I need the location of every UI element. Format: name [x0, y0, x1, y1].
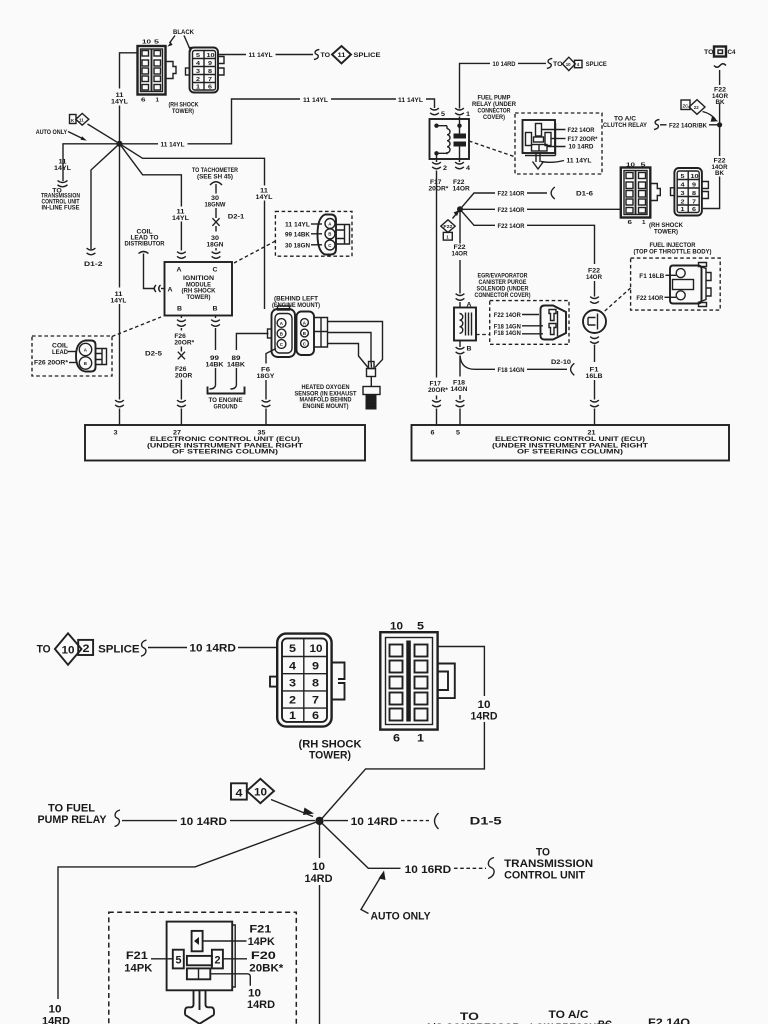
svg-text:8: 8	[208, 69, 212, 75]
svg-text:F26 20OR*: F26 20OR*	[34, 360, 68, 367]
fuel injector connector detail (dashed box)	[603, 258, 720, 312]
svg-text:14BK: 14BK	[227, 362, 245, 369]
svg-text:10 14RD: 10 14RD	[569, 144, 594, 151]
svg-text:TOWER): TOWER)	[172, 108, 194, 115]
svg-text:14RD: 14RD	[471, 711, 498, 723]
svg-text:CLUTCH RELAY: CLUTCH RELAY	[603, 122, 648, 129]
svg-text:D2-5: D2-5	[145, 351, 162, 358]
svg-text:10: 10	[626, 163, 635, 169]
svg-text:F22 14OR: F22 14OR	[498, 223, 525, 230]
svg-text:F18 14GN: F18 14GN	[498, 367, 525, 374]
wire: J2 to injector circle (F22 14OR)	[460, 209, 602, 303]
in-line connector detail (dashed box, F21/F20)	[109, 912, 296, 1024]
svg-text:10 14RD: 10 14RD	[180, 816, 227, 828]
wire: TO A/C CLUTCH RELAY (F22 14OR/BK)	[603, 116, 720, 130]
svg-text:F1 16LB: F1 16LB	[639, 273, 664, 280]
svg-text:10 16RD: 10 16RD	[405, 864, 452, 876]
wire: J1 to D1-2	[84, 144, 120, 268]
svg-text:14PK: 14PK	[124, 963, 152, 975]
wire: J4 to transmission control unit (10 16RD)	[320, 821, 594, 882]
svg-text:TO: TO	[536, 847, 550, 859]
svg-text:5: 5	[641, 163, 646, 169]
wire: J1 left to transmission in-line fuse stub	[54, 144, 120, 181]
svg-text:5: 5	[456, 430, 460, 437]
splice symbol: TO 10/2 SPLICE (bottom section)	[37, 633, 278, 665]
svg-text:F2 14O: F2 14O	[648, 1017, 690, 1024]
EGR/evaporator canister purge solenoid L1	[454, 273, 531, 354]
svg-text:4: 4	[289, 660, 297, 672]
svg-text:F22 14OR/BK: F22 14OR/BK	[669, 122, 707, 129]
svg-text:10 14RD: 10 14RD	[351, 816, 398, 828]
svg-text:11 14YL: 11 14YL	[567, 158, 592, 165]
svg-text:5: 5	[441, 111, 445, 118]
svg-text:K: K	[71, 118, 75, 123]
fuel injector connector C2a (left)	[621, 163, 661, 227]
svg-text:6: 6	[312, 710, 319, 722]
svg-text:10: 10	[254, 787, 267, 799]
wire: J3 up to C4 connector (F22 14OR BK)	[704, 47, 736, 125]
svg-text:10: 10	[478, 699, 491, 711]
svg-text:GROUND: GROUND	[214, 403, 238, 410]
wire: C3b to junction J4 (10 14RD)	[320, 647, 498, 821]
splice ref symbol K/11 diamond	[70, 113, 120, 143]
svg-text:5: 5	[417, 621, 424, 633]
svg-text:9: 9	[208, 61, 212, 67]
svg-text:(TOP OF THROTTLE BODY): (TOP OF THROTTLE BODY)	[634, 249, 712, 256]
svg-text:F22: F22	[443, 224, 453, 229]
svg-text:10: 10	[207, 53, 215, 59]
svg-text:BLACK: BLACK	[173, 29, 194, 36]
svg-text:4: 4	[466, 165, 470, 172]
splice ref diamond ZC/22 at J3	[681, 100, 718, 122]
wire: O2 sensor ground (89 14BK)	[227, 334, 269, 390]
svg-text:14PK: 14PK	[248, 936, 275, 948]
3-pin connector detail (dashed box, 11 14YL / 99 14BK / 30 18GN)	[234, 211, 352, 263]
wire: branch to D2-10 (F18 14GN)	[460, 356, 574, 376]
svg-text:AUTO ONLY: AUTO ONLY	[371, 911, 431, 923]
node J4 junction	[315, 817, 323, 825]
svg-text:6: 6	[208, 85, 212, 91]
svg-text:14YL: 14YL	[172, 215, 189, 222]
wire: J4 to bottom left (10 14RD)	[42, 821, 320, 1024]
svg-text:6: 6	[393, 733, 400, 745]
svg-text:F21: F21	[249, 924, 271, 936]
svg-text:10: 10	[390, 621, 403, 633]
svg-text:F22 14OR: F22 14OR	[494, 312, 521, 319]
svg-text:BK: BK	[715, 170, 724, 177]
wire: J1 down to ECU pin 3 (11 14YL)	[111, 146, 127, 425]
svg-text:B: B	[213, 306, 218, 313]
svg-text:11 14YL: 11 14YL	[161, 142, 185, 149]
svg-text:F22 14OR: F22 14OR	[498, 191, 525, 198]
svg-text:C: C	[280, 342, 284, 347]
svg-text:CONNECTOR COVER): CONNECTOR COVER)	[475, 292, 531, 299]
wire: relay pin 2 down to ECU pin 6 (F17 20OR*)	[428, 171, 448, 426]
svg-text:A: A	[168, 287, 173, 294]
EGR solenoid connector detail (dashed box)	[476, 301, 569, 345]
svg-text:F22 14OR: F22 14OR	[498, 207, 525, 214]
node J1 junction	[117, 141, 123, 147]
svg-text:B: B	[467, 346, 472, 353]
svg-text:LEAD: LEAD	[52, 349, 68, 356]
svg-text:1: 1	[642, 220, 646, 226]
wire: J1 right then up to relay (11 14YL x2)	[120, 97, 435, 149]
svg-text:4: 4	[236, 788, 244, 800]
svg-text:BC: BC	[598, 1019, 612, 1024]
svg-text:D2-1: D2-1	[228, 214, 245, 221]
svg-text:14GN: 14GN	[451, 386, 468, 393]
svg-text:F20: F20	[251, 950, 276, 962]
svg-text:30 18GN: 30 18GN	[285, 242, 310, 249]
svg-text:SPLICE: SPLICE	[354, 52, 382, 59]
svg-text:ZC: ZC	[683, 103, 690, 108]
svg-text:OF STEERING COLUMN): OF STEERING COLUMN)	[517, 449, 623, 456]
svg-text:BK: BK	[716, 99, 725, 106]
wire: J2 down to EGR solenoid (F22 14OR)	[452, 209, 468, 307]
svg-text:SPLICE: SPLICE	[586, 61, 608, 68]
svg-text:14YL: 14YL	[111, 99, 128, 106]
wire: TO FUEL PUMP RELAY (10 14RD)	[38, 803, 316, 829]
svg-text:B: B	[177, 306, 182, 313]
svg-text:D1-6: D1-6	[576, 191, 593, 198]
svg-text:TO: TO	[37, 644, 51, 656]
svg-text:11 14YL: 11 14YL	[249, 52, 273, 59]
svg-text:11 14YL: 11 14YL	[303, 97, 328, 104]
svg-text:14YL: 14YL	[256, 194, 273, 201]
svg-text:14YL: 14YL	[111, 298, 127, 305]
svg-text:7: 7	[692, 200, 696, 206]
svg-text:F22 14OR: F22 14OR	[568, 127, 595, 134]
svg-text:4: 4	[577, 62, 580, 67]
svg-text:14BK: 14BK	[206, 362, 224, 369]
coil lead connector detail (dashed box)	[32, 317, 161, 376]
svg-text:3: 3	[196, 69, 200, 75]
svg-text:3: 3	[289, 678, 296, 690]
svg-text:5: 5	[681, 174, 685, 180]
svg-text:10: 10	[310, 643, 323, 655]
ignition module U1 (RH shock tower)	[154, 262, 232, 316]
svg-text:18GNW: 18GNW	[205, 201, 227, 208]
svg-text:20BK*: 20BK*	[249, 963, 284, 975]
fuel pump relay K1	[429, 108, 471, 192]
coil lead stub wire into module pin A	[139, 252, 165, 289]
svg-text:6: 6	[141, 98, 146, 104]
svg-text:5: 5	[154, 40, 159, 46]
svg-text:C: C	[213, 267, 218, 274]
svg-text:AUTO ONLY: AUTO ONLY	[36, 129, 68, 136]
svg-text:DISTRIBUTOR: DISTRIBUTOR	[125, 241, 165, 248]
splice ref diamond F22/1 at J2	[441, 209, 460, 240]
splice ref symbol 4/10 diamond at J4	[231, 779, 314, 817]
svg-text:99 14BK: 99 14BK	[285, 231, 310, 238]
node J3 junction	[717, 122, 722, 127]
svg-text:1: 1	[417, 733, 424, 745]
connector C3a 10-way (RH shock tower, bottom left)	[270, 634, 362, 762]
svg-text:14YL: 14YL	[54, 165, 71, 172]
svg-text:11 14YL: 11 14YL	[285, 222, 310, 229]
svg-text:11 14YL: 11 14YL	[398, 97, 423, 104]
svg-text:TO FUEL: TO FUEL	[48, 803, 95, 815]
svg-text:A: A	[84, 347, 88, 352]
svg-text:2: 2	[681, 200, 685, 206]
ECU box left (pins 3, 27, 35)	[85, 425, 365, 461]
fuel injector symbol (circle)	[583, 310, 606, 425]
svg-text:F21: F21	[126, 950, 148, 962]
svg-text:14OR: 14OR	[453, 186, 470, 193]
svg-text:6: 6	[692, 207, 696, 213]
wire: C2b to node J3 (F22 14OR BK)	[703, 127, 728, 209]
node J2 junction	[457, 206, 463, 212]
svg-text:2: 2	[83, 643, 90, 655]
svg-text:14RD: 14RD	[42, 1016, 70, 1024]
svg-text:1: 1	[196, 85, 200, 91]
wire: J4 to D1-5 (10 14RD)	[324, 813, 502, 829]
svg-text:5: 5	[289, 643, 296, 655]
wire: J1 to 11 14YL branch toward O2 connector	[120, 144, 273, 309]
ECU box right (pins 6, 5, 21)	[412, 425, 730, 461]
svg-text:14OR: 14OR	[586, 274, 602, 281]
bottom edge partial labels	[425, 1009, 690, 1024]
svg-text:1: 1	[681, 207, 685, 213]
svg-text:20OR: 20OR	[175, 373, 192, 380]
svg-text:16LB: 16LB	[586, 373, 603, 380]
svg-text:14RD: 14RD	[305, 873, 333, 885]
wire: connector C1a to junction J1 (11 14YL)	[111, 53, 138, 144]
svg-text:2: 2	[215, 955, 221, 967]
svg-text:10: 10	[49, 1004, 62, 1016]
label BLACK with arrows	[167, 29, 194, 52]
O2 sensor connector pair (BEHIND LEFT ENGINE MOUNT)	[268, 296, 328, 358]
wire: O2 pin C to ECU pin 35 (F6 18GY)	[257, 349, 277, 426]
wire: solenoid B to ECU pin 5 (F18 14GN)	[451, 356, 468, 426]
wire: J2 to fuel injector connector (F22 14OR)	[460, 207, 621, 214]
svg-text:3: 3	[681, 191, 685, 197]
svg-text:2: 2	[443, 165, 447, 172]
svg-text:IN-LINE FUSE: IN-LINE FUSE	[42, 205, 81, 212]
label TO TRANSMISSION CONTROL UNIT IN-LINE FUSE	[41, 188, 80, 212]
svg-text:20OR*: 20OR*	[174, 340, 194, 347]
fuel pump relay connector detail (dashed box)	[469, 113, 602, 174]
svg-text:OF STEERING COLUMN): OF STEERING COLUMN)	[172, 449, 278, 456]
svg-text:B: B	[303, 331, 306, 336]
svg-text:10: 10	[62, 645, 75, 657]
svg-text:10: 10	[312, 861, 325, 873]
svg-text:F22 14OR: F22 14OR	[636, 295, 663, 302]
svg-text:8: 8	[312, 678, 319, 690]
svg-text:ENGINE MOUNT): ENGINE MOUNT)	[303, 403, 349, 410]
svg-text:9: 9	[312, 660, 319, 672]
svg-text:18GY: 18GY	[257, 373, 276, 380]
heated oxygen sensor with leads	[295, 322, 383, 410]
svg-text:1: 1	[466, 111, 470, 118]
svg-text:C: C	[328, 243, 332, 248]
wire: J4 down (10 14RD vertical)	[305, 821, 333, 1024]
svg-text:TOWER): TOWER)	[654, 229, 678, 236]
svg-text:10: 10	[566, 62, 571, 67]
wire: J1 to coil/module branch (11 14YL)	[120, 144, 190, 259]
svg-text:C4: C4	[728, 49, 736, 56]
connector C3b 10-way mate (bottom)	[380, 621, 455, 745]
svg-text:11: 11	[338, 52, 346, 59]
svg-text:TRANSMISSION: TRANSMISSION	[504, 858, 593, 870]
wire 11 14YL to splice 11	[218, 52, 313, 59]
svg-text:6: 6	[431, 430, 435, 437]
svg-text:(SEE SH 45): (SEE SH 45)	[197, 173, 233, 180]
wire: module B right to engine ground (99 14BK)	[206, 316, 224, 390]
svg-text:A: A	[303, 320, 307, 325]
svg-text:TO: TO	[704, 49, 714, 56]
svg-text:8: 8	[692, 191, 696, 197]
svg-text:COVER): COVER)	[483, 114, 505, 121]
stub TO TACHOMETER (SEE SH 45)	[192, 167, 245, 258]
svg-text:A: A	[328, 221, 332, 226]
svg-text:A: A	[177, 267, 182, 274]
label FUEL INJECTOR (TOP OF THROTTLE BODY)	[634, 242, 712, 256]
svg-text:11: 11	[79, 117, 84, 122]
svg-text:TOWER): TOWER)	[187, 294, 211, 301]
label AUTO ONLY with arrow (bottom)	[361, 871, 431, 923]
connector C1a 10-way (RH shock tower, left half)	[138, 40, 177, 104]
wire: relay pin 1 up to splice 10/4 (10 14RD)	[460, 57, 608, 108]
svg-text:5: 5	[176, 955, 182, 967]
svg-text:1: 1	[156, 98, 160, 104]
svg-text:D1-2: D1-2	[84, 261, 103, 268]
svg-text:F18 14GN: F18 14GN	[494, 330, 521, 337]
svg-text:B: B	[280, 331, 283, 336]
svg-text:18GN: 18GN	[207, 241, 224, 248]
svg-text:B: B	[84, 361, 87, 366]
svg-text:14RD: 14RD	[247, 999, 275, 1011]
svg-text:SPLICE: SPLICE	[98, 644, 140, 656]
svg-text:14OR: 14OR	[452, 251, 468, 258]
svg-text:22: 22	[694, 105, 699, 110]
svg-text:1: 1	[446, 235, 449, 240]
svg-text:10 14RD: 10 14RD	[493, 61, 516, 68]
svg-text:20OR*: 20OR*	[428, 387, 448, 394]
svg-text:10 14RD: 10 14RD	[189, 643, 236, 655]
fuel injector connector C2b (right mate)	[649, 168, 708, 236]
label FUEL PUMP RELAY (UNDER CONNECTOR COVER)	[472, 95, 516, 122]
svg-text:7: 7	[208, 77, 212, 83]
svg-text:D1-5: D1-5	[470, 816, 502, 828]
svg-text:F17 20OR*: F17 20OR*	[568, 136, 598, 143]
svg-text:TO: TO	[553, 61, 563, 68]
label AUTO ONLY with arrow	[36, 129, 87, 141]
svg-text:C: C	[303, 341, 307, 346]
svg-text:5: 5	[196, 53, 200, 59]
svg-text:1: 1	[289, 710, 296, 722]
svg-text:TO A/C: TO A/C	[549, 1009, 589, 1021]
svg-text:B: B	[328, 232, 331, 237]
svg-text:10: 10	[691, 174, 699, 180]
connector stub symbol (in-line fuse)	[58, 181, 68, 187]
svg-text:9: 9	[692, 183, 696, 189]
svg-text:10: 10	[142, 40, 151, 46]
svg-text:PUMP RELAY: PUMP RELAY	[38, 814, 108, 826]
wire: J2 to D1-6 (F22 14OR)	[460, 187, 593, 209]
svg-text:20OR*: 20OR*	[429, 186, 449, 193]
splice symbol: TO 11 SPLICE	[314, 46, 381, 64]
svg-text:TO: TO	[321, 52, 331, 59]
svg-text:2: 2	[196, 77, 200, 83]
svg-text:D2-10: D2-10	[551, 359, 571, 366]
svg-text:TOWER): TOWER)	[309, 750, 351, 762]
label (RH SHOCK TOWER) for top-left pair	[169, 102, 199, 115]
ground symbol TO ENGINE GROUND	[208, 387, 245, 411]
svg-text:7: 7	[312, 695, 319, 707]
svg-text:2: 2	[289, 695, 296, 707]
svg-text:10: 10	[248, 988, 261, 1000]
svg-text:6: 6	[628, 220, 633, 226]
svg-text:CONTROL UNIT: CONTROL UNIT	[504, 870, 585, 882]
connector C1b 10-way mate (RH shock tower)	[186, 48, 225, 93]
svg-text:3: 3	[114, 430, 118, 437]
svg-text:A: A	[280, 321, 284, 326]
label COIL LEAD TO DISTRIBUTOR	[125, 229, 165, 248]
wire: module B to F26 splice to ECU pin 27	[174, 316, 194, 426]
